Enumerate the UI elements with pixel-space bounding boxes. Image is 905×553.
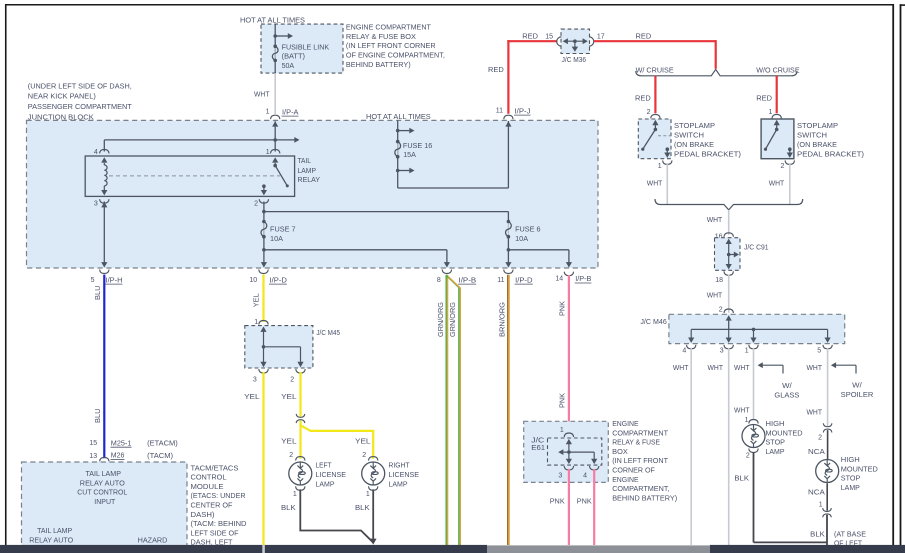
junction connector J/C E61 <box>564 433 573 437</box>
svg-text:1: 1 <box>745 417 749 424</box>
svg-text:LEFT SIDE OF: LEFT SIDE OF <box>191 528 240 537</box>
node - branch to I/P-B 14 <box>507 248 511 252</box>
svg-text:W/O CRUISE: W/O CRUISE <box>756 66 799 75</box>
wire - relay pin 3 to I/P-H <box>103 202 105 267</box>
svg-text:GLASS: GLASS <box>774 391 799 400</box>
svg-text:(ETACM): (ETACM) <box>147 438 178 447</box>
svg-text:17: 17 <box>597 33 605 40</box>
svg-text:(ETACS: UNDER: (ETACS: UNDER <box>191 491 246 500</box>
option split brace W/ CRUISE vs W/O CRUISE <box>636 69 797 75</box>
right license lamp E4 <box>369 457 378 461</box>
svg-text:4: 4 <box>94 149 98 156</box>
svg-text:2: 2 <box>362 452 366 459</box>
connector 8 I/P-B <box>442 270 451 274</box>
wire - branch over to fuse 6 <box>264 211 509 213</box>
wire WHT J/C C91 to J/C M46 <box>728 275 730 313</box>
svg-text:BOX: BOX <box>612 447 628 456</box>
svg-text:BEHIND BATTERY): BEHIND BATTERY) <box>612 493 677 502</box>
svg-text:RED: RED <box>636 31 652 40</box>
wire RED to stoplamp switch S1 <box>654 76 656 114</box>
svg-text:3: 3 <box>558 473 562 480</box>
wire GRN/ORG from I/P-B 8 (right branch) <box>447 276 459 545</box>
svg-text:1: 1 <box>293 491 297 498</box>
wire - stub arrow upper <box>398 130 410 132</box>
svg-text:3: 3 <box>720 348 724 355</box>
svg-text:PEDAL BRACKET): PEDAL BRACKET) <box>674 150 741 159</box>
svg-text:15: 15 <box>89 440 97 447</box>
svg-text:5: 5 <box>91 277 95 284</box>
svg-text:(UNDER LEFT SIDE OF DASH,: (UNDER LEFT SIDE OF DASH, <box>28 81 132 90</box>
svg-text:PNK: PNK <box>557 393 566 408</box>
wire WHT J/C M46 pin 1 to stop lamp (w/ glass) <box>753 348 755 420</box>
wire BLK left license lamp to ground splice <box>300 489 373 542</box>
svg-text:2: 2 <box>719 306 723 313</box>
wire PNK J/C E61 pin 3 down <box>568 469 570 545</box>
svg-text:(ON BRAKE: (ON BRAKE <box>797 140 837 149</box>
svg-text:1: 1 <box>266 108 270 115</box>
svg-text:J/C M36: J/C M36 <box>562 55 587 64</box>
svg-text:FUSE 6: FUSE 6 <box>515 225 541 234</box>
svg-text:STOP: STOP <box>841 474 861 483</box>
engine compartment relay and fuse box enclosure (J/C E61) <box>524 421 609 482</box>
svg-text:LICENSE: LICENSE <box>316 470 347 479</box>
junction connector J/C M46 <box>724 309 733 313</box>
wire WHT J/C M46 pin 3 down <box>728 348 730 545</box>
svg-text:COMPARTMENT: COMPARTMENT <box>612 428 668 437</box>
wire GRN/ORG from I/P-B 8 (left) <box>445 275 447 545</box>
svg-text:HIGH: HIGH <box>766 419 785 428</box>
svg-text:CORNER OF: CORNER OF <box>612 466 655 475</box>
svg-text:10A: 10A <box>270 234 283 243</box>
svg-text:M26: M26 <box>111 451 125 460</box>
svg-text:STOPLAMP: STOPLAMP <box>797 121 838 130</box>
svg-text:WHT: WHT <box>807 363 823 372</box>
svg-text:ENGINE: ENGINE <box>612 419 639 428</box>
stoplamp switch S2 (w/o cruise, on brake pedal bracket) <box>761 119 794 159</box>
option merge brace to common WHT <box>655 199 803 210</box>
svg-text:PNK: PNK <box>557 301 566 316</box>
fuse F6 10A <box>507 222 509 237</box>
svg-text:WHT: WHT <box>673 363 689 372</box>
svg-text:1: 1 <box>658 163 662 170</box>
node - fusible link feed tap <box>273 34 277 38</box>
svg-text:RELAY AUTO: RELAY AUTO <box>29 535 73 544</box>
TACM/ETACS control module box <box>22 462 188 553</box>
svg-text:15: 15 <box>545 33 553 40</box>
svg-text:W/ CRUISE: W/ CRUISE <box>636 66 674 75</box>
node - fuse 16 lower tap <box>396 169 400 173</box>
svg-text:LAMP: LAMP <box>298 166 317 175</box>
wire - branch to I/P-B 8 <box>264 249 447 251</box>
svg-text:10A: 10A <box>515 234 528 243</box>
wire RED I/P-J to J/C M36 <box>507 40 509 114</box>
wire WHT fusible link to I/P-A <box>274 73 276 114</box>
wire BRN/ORG from I/P-D 11 <box>507 275 509 545</box>
svg-text:OF ENGINE COMPARTMENT,: OF ENGINE COMPARTMENT, <box>346 51 445 60</box>
left license lamp E3 <box>296 457 305 461</box>
node - branch to fuse 6 <box>262 210 266 214</box>
svg-text:BLK: BLK <box>810 530 825 539</box>
node - branch at relay feed <box>273 138 277 142</box>
svg-text:RIGHT: RIGHT <box>389 461 410 470</box>
svg-text:15A: 15A <box>403 150 416 159</box>
svg-text:LAMP: LAMP <box>766 447 785 456</box>
wire - w/ spoiler option stub <box>831 362 836 368</box>
next-row component box header (center, light) <box>487 545 710 553</box>
svg-text:I/P-D: I/P-D <box>515 275 532 284</box>
svg-text:WHT: WHT <box>769 178 785 187</box>
svg-text:I/P-B: I/P-B <box>575 274 591 283</box>
svg-text:LAMP: LAMP <box>841 483 860 492</box>
svg-text:BLK: BLK <box>355 503 370 512</box>
wire BLK stop lamp E2 to ground <box>826 515 828 545</box>
svg-text:BLK: BLK <box>734 473 749 482</box>
svg-text:13: 13 <box>89 453 97 460</box>
wire YEL splice to left license lamp <box>299 419 301 458</box>
wire YEL I/P-D 10 to J/C M45 <box>262 275 264 322</box>
svg-text:MOUNTED: MOUNTED <box>766 428 803 437</box>
svg-text:YEL: YEL <box>355 436 371 445</box>
svg-text:W/: W/ <box>782 381 793 390</box>
node - fuse 16 upper tap <box>396 129 400 133</box>
high mounted stop lamp E2 (w/ spoiler) <box>816 460 839 483</box>
svg-text:JUNCTION BLOCK: JUNCTION BLOCK <box>28 112 94 121</box>
svg-text:MODULE: MODULE <box>191 482 224 491</box>
svg-text:I/P-B: I/P-B <box>459 275 477 284</box>
svg-text:M25-1: M25-1 <box>111 438 132 447</box>
svg-text:2: 2 <box>290 376 294 383</box>
svg-text:GRN/ORG: GRN/ORG <box>436 302 445 337</box>
connector at TACM box edge <box>100 457 109 461</box>
svg-text:CUT CONTROL: CUT CONTROL <box>77 488 127 497</box>
next-row component box header (right) <box>710 545 905 553</box>
svg-text:WHT: WHT <box>707 291 723 300</box>
svg-text:RELAY & FUSE BOX: RELAY & FUSE BOX <box>346 32 416 41</box>
wire YEL branch to right license lamp <box>301 425 374 458</box>
svg-text:1: 1 <box>819 501 823 508</box>
svg-text:10: 10 <box>249 277 257 284</box>
wire - fuse 16 vertical feed <box>397 120 399 188</box>
wire - fuse 16 leg to I/P-J riser <box>398 187 509 189</box>
junction connector J/C M36 <box>561 29 590 53</box>
junction connector J/C C91 <box>724 233 733 237</box>
connector 14 I/P-B <box>564 272 573 276</box>
svg-text:DASH): DASH) <box>191 510 215 519</box>
svg-text:RED: RED <box>635 94 651 103</box>
wire WHT merge to J/C C91 <box>728 210 730 235</box>
svg-text:WHT: WHT <box>708 363 724 372</box>
svg-text:LAMP: LAMP <box>389 480 408 489</box>
wire - feed stub arrow to other circuits <box>275 35 288 37</box>
svg-text:STOP: STOP <box>766 438 786 447</box>
svg-text:J/C M45: J/C M45 <box>316 328 340 337</box>
svg-text:HIGH: HIGH <box>841 455 860 464</box>
svg-text:(IN LEFT FRONT: (IN LEFT FRONT <box>612 456 668 465</box>
svg-text:2: 2 <box>254 201 258 208</box>
svg-text:FUSIBLE LINK: FUSIBLE LINK <box>282 42 330 51</box>
passenger compartment junction block (dashed enclosure) <box>27 120 599 268</box>
svg-text:HAZARD: HAZARD <box>138 535 168 544</box>
svg-text:YEL: YEL <box>244 392 260 401</box>
svg-text:11: 11 <box>497 277 504 284</box>
wire - stub arrow lower <box>398 170 410 172</box>
svg-text:LAMP: LAMP <box>316 480 335 489</box>
svg-text:WHT: WHT <box>707 215 723 224</box>
svg-text:YEL: YEL <box>281 436 297 445</box>
svg-text:NEAR KICK PANEL): NEAR KICK PANEL) <box>28 92 96 101</box>
wire RED J/C M36 to cruise option split <box>594 40 716 42</box>
wire PNK J/C E61 pin 4 down <box>593 469 595 545</box>
node - branch to I/P-B 8 <box>262 248 266 252</box>
next-row component box header (left) <box>0 545 262 553</box>
svg-text:I/P-D: I/P-D <box>270 275 287 284</box>
svg-text:SWITCH: SWITCH <box>797 131 827 140</box>
wire WHT J/C M46 pin 4 down <box>690 348 692 545</box>
connector 5 I/P-H <box>100 270 109 274</box>
tail lamp relay K1 box <box>85 156 294 196</box>
svg-text:WHT: WHT <box>254 89 270 98</box>
fuse F7 10A <box>263 222 265 237</box>
wire - relay pin 2 down to fuse 7 <box>263 202 265 267</box>
wire - I/P-A entry into block <box>272 121 278 126</box>
svg-text:YEL: YEL <box>281 392 297 401</box>
svg-text:RELAY AUTO: RELAY AUTO <box>80 478 125 487</box>
svg-text:CENTER OF: CENTER OF <box>191 501 234 510</box>
svg-text:11: 11 <box>496 107 503 114</box>
svg-text:4: 4 <box>583 473 587 480</box>
relay coil <box>103 163 105 165</box>
svg-text:(TACM): (TACM) <box>147 451 173 460</box>
wire - feed stub arrow right <box>275 139 294 141</box>
svg-text:18: 18 <box>715 277 723 284</box>
svg-text:PNK: PNK <box>550 497 565 506</box>
svg-text:RELAY: RELAY <box>298 175 321 184</box>
svg-text:W/: W/ <box>852 381 863 390</box>
inline connector on license lamp feed <box>299 417 302 421</box>
svg-text:RED: RED <box>756 94 772 103</box>
svg-text:HOT AT ALL TIMES: HOT AT ALL TIMES <box>240 15 305 24</box>
svg-text:E61: E61 <box>531 443 545 452</box>
svg-text:BEHIND BATTERY): BEHIND BATTERY) <box>346 60 411 69</box>
svg-text:SPOILER: SPOILER <box>841 390 874 399</box>
svg-text:2: 2 <box>289 452 293 459</box>
next-row component box header (center-left) <box>265 545 487 553</box>
wire WHT from switch S2 <box>789 163 791 204</box>
svg-text:I/P-A: I/P-A <box>282 107 299 116</box>
svg-text:BLU: BLU <box>93 286 102 301</box>
connector 10 I/P-D <box>259 270 268 274</box>
svg-text:LICENSE: LICENSE <box>389 470 420 479</box>
svg-text:TAIL LAMP: TAIL LAMP <box>37 526 72 535</box>
svg-text:8: 8 <box>437 277 441 284</box>
junction connector J/C M45 <box>259 321 268 325</box>
svg-text:WHT: WHT <box>807 407 823 416</box>
svg-text:PEDAL BRACKET): PEDAL BRACKET) <box>797 150 864 159</box>
wire gap seam in bottom bar <box>262 545 264 553</box>
wire BLK stop lamp E1 to ground splice <box>753 452 755 542</box>
wire YEL J/C M45 pin 2 to license lamps <box>299 372 301 418</box>
wire WHT from switch S1 <box>666 163 668 204</box>
wire - branch to I/P-B 14 <box>508 249 569 251</box>
svg-text:TACM/ETACS: TACM/ETACS <box>191 463 239 472</box>
svg-text:2: 2 <box>780 163 784 170</box>
svg-text:NCA: NCA <box>808 447 825 456</box>
wire - branch to relay pin 4 <box>104 139 275 141</box>
svg-text:3: 3 <box>94 201 98 208</box>
svg-text:BLU: BLU <box>93 409 102 424</box>
svg-text:BRN/ORG: BRN/ORG <box>498 302 507 337</box>
connector 11 I/P-D (fuse 6 output) <box>504 270 513 274</box>
svg-text:PNK: PNK <box>577 497 592 506</box>
wire - fuse 6 down to I/P-D 11 <box>507 237 509 267</box>
svg-text:COMPARTMENT,: COMPARTMENT, <box>612 484 669 493</box>
svg-text:1: 1 <box>745 348 749 355</box>
wire PNK I/P-B 14 to J/C E61 <box>568 275 570 435</box>
svg-text:2: 2 <box>647 109 651 116</box>
svg-text:J/C C91: J/C C91 <box>744 243 769 252</box>
svg-text:MOUNTED: MOUNTED <box>841 464 878 473</box>
wire - fuse 7 to I/P-D 10 arrow <box>261 262 267 267</box>
svg-text:2: 2 <box>818 435 822 442</box>
svg-text:CONTROL: CONTROL <box>191 473 227 482</box>
svg-text:1: 1 <box>366 491 370 498</box>
svg-text:YEL: YEL <box>252 293 261 307</box>
svg-text:(BATT): (BATT) <box>282 52 305 61</box>
svg-text:RELAY & FUSE: RELAY & FUSE <box>612 438 660 447</box>
svg-text:RED: RED <box>488 65 504 74</box>
svg-text:TAIL: TAIL <box>298 156 312 165</box>
wire - fusible link internal vertical <box>274 24 276 73</box>
svg-text:I/P-H: I/P-H <box>106 275 123 284</box>
wire RED to stoplamp switch S2 <box>776 76 778 114</box>
svg-text:PASSENGER COMPARTMENT: PASSENGER COMPARTMENT <box>28 102 133 111</box>
relay actuation dashed link <box>109 175 280 177</box>
svg-text:RED: RED <box>522 31 538 40</box>
pin 2 of stoplamp switch S2 <box>785 160 794 164</box>
svg-text:3: 3 <box>253 376 257 383</box>
svg-text:(AT BASE: (AT BASE <box>834 530 866 539</box>
engine compartment relay and fuse box enclosure (fusible link) <box>261 24 343 73</box>
fusible link FL (BATT) 50A <box>274 46 276 60</box>
svg-text:FUSE 7: FUSE 7 <box>270 225 296 234</box>
svg-text:2: 2 <box>746 453 750 460</box>
svg-text:HOT AT ALL TIMES: HOT AT ALL TIMES <box>366 112 431 121</box>
svg-text:GRN/ORG: GRN/ORG <box>448 302 457 337</box>
wire NCA from stop lamp E2 <box>826 483 828 511</box>
inline connector on stop lamp E2 ground <box>825 511 828 515</box>
fuse F16 15A <box>397 142 399 157</box>
inline connector on stop lamp E2 feed <box>826 426 829 430</box>
wire NCA to stop lamp E2 <box>827 430 829 459</box>
relay switch contact <box>274 163 276 164</box>
wire BLK right license lamp to ground <box>372 489 374 538</box>
svg-text:WHT: WHT <box>734 363 750 372</box>
svg-text:ENGINE COMPARTMENT: ENGINE COMPARTMENT <box>346 22 432 31</box>
svg-text:ENGINE: ENGINE <box>612 475 639 484</box>
wire - w/ glass option stub <box>758 362 763 368</box>
pin 1 of stoplamp switch S1 <box>663 160 672 164</box>
svg-text:5: 5 <box>817 348 821 355</box>
svg-text:14: 14 <box>555 275 563 282</box>
svg-text:TAIL LAMP: TAIL LAMP <box>85 469 121 478</box>
svg-text:BLK: BLK <box>281 503 296 512</box>
wire WHT J/C M46 pin 5 to stop lamp (w/ spoiler) <box>827 348 829 427</box>
stoplamp switch S1 (w/ cruise, on brake pedal bracket) <box>638 119 671 159</box>
svg-text:(IN LEFT FRONT CORNER: (IN LEFT FRONT CORNER <box>346 41 436 50</box>
svg-text:J/C M46: J/C M46 <box>640 317 666 326</box>
svg-text:50A: 50A <box>282 61 295 70</box>
svg-text:NCA: NCA <box>808 488 825 497</box>
wire YEL J/C M45 pin 3 down to next page <box>262 372 264 545</box>
high mounted stop lamp E1 (w/ glass) <box>749 420 758 424</box>
svg-text:(ON BRAKE: (ON BRAKE <box>674 140 714 149</box>
svg-text:SWITCH: SWITCH <box>674 131 704 140</box>
svg-text:(TACM: BEHIND: (TACM: BEHIND <box>191 519 247 528</box>
svg-text:STOPLAMP: STOPLAMP <box>674 121 715 130</box>
svg-text:4: 4 <box>682 348 686 355</box>
svg-text:WHT: WHT <box>647 178 663 187</box>
svg-text:1: 1 <box>768 109 772 116</box>
svg-text:INPUT: INPUT <box>94 497 116 506</box>
svg-text:1: 1 <box>560 427 564 434</box>
svg-text:LEFT: LEFT <box>316 461 332 470</box>
svg-text:WHT: WHT <box>734 405 750 414</box>
wire BLU I/P-H 5 to TACM module <box>103 275 105 459</box>
svg-text:FUSE 16: FUSE 16 <box>403 141 432 150</box>
svg-text:I/P-J: I/P-J <box>515 106 531 115</box>
svg-text:1: 1 <box>266 149 270 156</box>
svg-text:1: 1 <box>254 319 258 326</box>
